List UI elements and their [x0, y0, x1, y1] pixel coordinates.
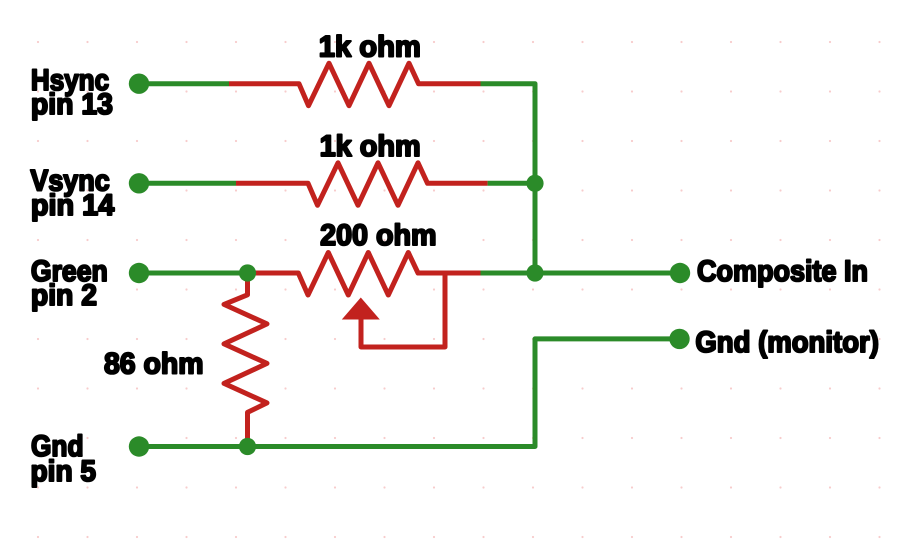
svg-text:pin 13: pin 13 — [31, 88, 113, 121]
svg-text:1k ohm: 1k ohm — [319, 31, 421, 64]
node label Gnd pin 5 — [31, 430, 97, 488]
node label Hsync pin 13 — [31, 64, 113, 121]
wire Gnd pin 5 bottom green run, up and right to Gnd (monitor) — [139, 339, 680, 447]
node label Vsync pin 14 — [30, 164, 114, 221]
junction Vsync / vertical bus — [526, 175, 543, 192]
junction Green row / vertical bus — [526, 264, 543, 281]
svg-text:1k ohm: 1k ohm — [320, 130, 421, 163]
wire Hsync green right segment to vertical bus — [481, 84, 536, 273]
terminal Vsync pin 14 — [129, 173, 149, 193]
svg-text:200 ohm: 200 ohm — [320, 219, 437, 252]
svg-text:Composite In: Composite In — [697, 255, 868, 288]
node label Green pin 2 — [31, 255, 108, 312]
resistor 86 ohm (vertical, red with leads) — [224, 273, 267, 447]
potentiometer wiper arm wire — [361, 273, 445, 347]
wire Vsync green right segment to junction — [488, 181, 535, 186]
terminal Gnd (monitor) — [669, 329, 689, 349]
terminal Green pin 2 — [129, 263, 149, 283]
wire Green row green right segment to Composite In — [481, 271, 681, 276]
wire Vsync green left segment — [139, 181, 236, 186]
terminal Composite In — [670, 263, 690, 283]
svg-text:pin 5: pin 5 — [31, 455, 97, 488]
svg-text:86 ohm: 86 ohm — [104, 347, 204, 380]
junction Green row / 86 ohm top — [239, 264, 256, 281]
wire Green pin 2 green left segment — [139, 271, 248, 276]
potentiometer 200 ohm element (red zigzag with leads) — [248, 253, 481, 296]
potentiometer wiper arrowhead — [342, 298, 380, 320]
terminal Gnd pin 5 — [129, 436, 149, 456]
junction Gnd row / 86 ohm bottom — [239, 438, 256, 455]
svg-text:pin 2: pin 2 — [31, 279, 97, 312]
resistor 1k ohm (Hsync row, red with leads) — [229, 63, 481, 105]
svg-text:Gnd (monitor): Gnd (monitor) — [695, 326, 879, 359]
resistor 1k ohm (Vsync row, red with leads) — [236, 163, 488, 206]
wire Hsync green left segment — [139, 81, 229, 86]
terminal Hsync pin 13 — [129, 74, 149, 94]
svg-text:pin 14: pin 14 — [31, 189, 115, 222]
